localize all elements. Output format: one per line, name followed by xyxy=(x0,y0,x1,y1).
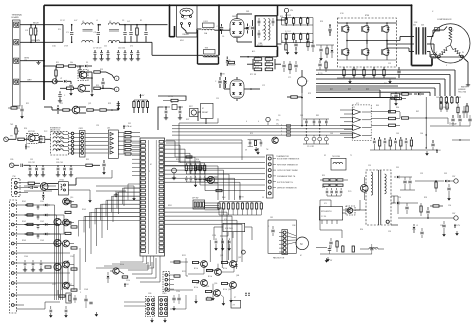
junction node mains xyxy=(240,50,277,58)
filter choke L203 xyxy=(255,16,277,47)
terminal board TB1 label xyxy=(12,14,23,19)
capacitor C204 xyxy=(251,20,254,36)
svg-text:DIP SW: DIP SW xyxy=(192,198,199,200)
bus wires left2 xyxy=(24,215,64,234)
wire tap from bus xyxy=(43,65,56,67)
svg-text:IC9: IC9 xyxy=(324,203,327,205)
relay overload box K1 xyxy=(177,6,198,38)
svg-text:RA3: RA3 xyxy=(222,196,225,199)
wire k41 bus xyxy=(24,170,134,198)
resistor R13 xyxy=(94,71,106,73)
svg-text:L9: L9 xyxy=(416,225,418,227)
connector PW1 xyxy=(12,176,28,197)
power 5V c xyxy=(430,149,441,153)
capacitor group C33 xyxy=(56,162,73,177)
wire reset to mcu xyxy=(198,112,206,124)
svg-text:R68: R68 xyxy=(352,133,355,135)
diode D11 xyxy=(80,65,92,68)
resistor R21 xyxy=(58,109,72,111)
svg-text:R122: R122 xyxy=(182,271,186,273)
svg-text:C102: C102 xyxy=(40,221,44,223)
connector CN84 xyxy=(159,297,168,317)
wire L202 to bridge xyxy=(204,56,220,58)
svg-text:BOARD: BOARD xyxy=(12,16,20,19)
motor opto box PC21 xyxy=(27,131,39,143)
terminal X21 xyxy=(4,137,16,142)
svg-text:PW: PW xyxy=(13,176,16,178)
mcu left fan xyxy=(79,143,141,236)
svg-text:R91: R91 xyxy=(322,175,325,177)
comparator bus vertical xyxy=(426,97,427,149)
IPM bus top xyxy=(338,22,397,24)
svg-text:R73: R73 xyxy=(308,93,311,95)
wire s21 xyxy=(45,138,51,140)
svg-text:PC9: PC9 xyxy=(348,191,351,193)
svg-text:C104: C104 xyxy=(24,256,28,258)
sensor pullups xyxy=(185,163,206,174)
power 5V b xyxy=(25,144,30,149)
capacitor C35 xyxy=(21,164,30,167)
right edge parts xyxy=(466,103,472,126)
svg-text:C33: C33 xyxy=(56,159,59,161)
comparators U61 A-D xyxy=(352,107,371,138)
inductor L201 xyxy=(202,21,230,31)
ground G51 xyxy=(256,148,260,155)
smps controller U71 xyxy=(319,207,342,224)
svg-text:R107: R107 xyxy=(68,284,72,286)
connector pin P501 xyxy=(284,8,293,20)
cn71 wires xyxy=(14,205,24,305)
wire W out xyxy=(387,41,414,52)
svg-text:C108: C108 xyxy=(84,289,88,291)
wire U out xyxy=(347,37,414,41)
wire ct to sense xyxy=(301,93,303,126)
driver stages xyxy=(63,198,77,291)
svg-text:0.47: 0.47 xyxy=(74,20,77,22)
svg-text:CT1: CT1 xyxy=(288,77,291,79)
capacitor C5 line xyxy=(144,25,147,43)
connector pin P52 xyxy=(266,117,270,125)
smps lower parts xyxy=(326,238,338,262)
svg-text:DB1: DB1 xyxy=(246,11,249,13)
svg-text:1 2 3 4: 1 2 3 4 xyxy=(321,216,326,218)
smps extra parts xyxy=(391,196,443,233)
labels cs xyxy=(276,120,279,126)
igbt aux parts2 xyxy=(318,60,327,75)
diode D74 xyxy=(440,180,447,182)
wire web center xyxy=(128,256,160,282)
capacitor C13 xyxy=(101,78,104,89)
resistor chain R71 xyxy=(320,179,348,181)
svg-text:R121: R121 xyxy=(182,255,186,257)
gate drive wires xyxy=(316,70,455,96)
svg-text:CN10: CN10 xyxy=(162,293,166,295)
svg-text:222: 222 xyxy=(104,46,107,48)
transistor Q12 xyxy=(78,85,90,93)
svg-text:C61: C61 xyxy=(436,97,439,99)
transistor array Q81-Q88 xyxy=(193,240,250,299)
pullup array RA3 xyxy=(218,195,263,215)
capacitor C521 xyxy=(397,67,400,78)
svg-text:Q90: Q90 xyxy=(214,283,217,285)
svg-text:R94: R94 xyxy=(360,229,363,231)
transistor Q72 xyxy=(54,218,61,225)
svg-text:Q21: Q21 xyxy=(88,103,91,105)
mcu bus down xyxy=(165,166,241,200)
wire bridge top xyxy=(237,14,252,17)
bus dots xyxy=(43,4,412,98)
svg-text:R110: R110 xyxy=(120,264,124,266)
resistor R203 xyxy=(228,61,237,66)
wire gray xyxy=(20,80,53,82)
svg-text:R81: R81 xyxy=(316,115,319,117)
svg-text:XT: XT xyxy=(234,297,236,299)
driver resistors xyxy=(65,201,71,235)
diode D12 xyxy=(60,80,71,83)
wire row21 xyxy=(44,107,58,110)
wire motor V xyxy=(427,44,437,55)
right edge parts2 xyxy=(452,104,470,141)
wire orange xyxy=(412,118,457,126)
svg-text:M: M xyxy=(300,242,302,246)
resistor R64 xyxy=(400,112,412,119)
svg-text:C62: C62 xyxy=(458,97,461,99)
svg-text:R102: R102 xyxy=(22,221,26,223)
svg-text:R 10k: R 10k xyxy=(194,287,198,289)
thick bus right vertical xyxy=(411,5,413,65)
transistor Q22 xyxy=(28,135,38,142)
svg-text:C65: C65 xyxy=(396,133,399,135)
svg-text:C2 C4 R2: C2 C4 R2 xyxy=(307,146,314,148)
comparator top resistor xyxy=(389,97,406,112)
expansion valve coil LV1 xyxy=(50,126,68,155)
connector CN82 xyxy=(163,272,174,292)
svg-text:Q10: Q10 xyxy=(70,197,73,199)
svg-text:C81: C81 xyxy=(300,115,303,117)
driver IC U21 ULN2003 xyxy=(107,128,118,159)
zener D221 xyxy=(224,77,227,88)
svg-text:C94: C94 xyxy=(448,205,451,207)
sense divider grid xyxy=(303,119,329,148)
dip wires xyxy=(205,203,219,210)
svg-text:R 1W: R 1W xyxy=(266,62,270,64)
fan gnd xyxy=(325,258,333,263)
svg-text:C98 400V: C98 400V xyxy=(228,65,237,67)
thermistor labels xyxy=(273,159,300,190)
svg-text:R61: R61 xyxy=(330,89,333,91)
terminal label OR xyxy=(431,55,436,59)
svg-text:Q81: Q81 xyxy=(220,255,223,257)
svg-text:C33 C34: C33 C34 xyxy=(56,162,63,164)
sensor caps xyxy=(185,176,206,187)
svg-text:R15: R15 xyxy=(96,85,99,87)
svg-text:R62: R62 xyxy=(348,89,351,91)
svg-text:R0.022: R0.022 xyxy=(352,69,358,71)
gate resistors row xyxy=(440,96,459,104)
wire motor earth xyxy=(464,59,470,87)
wire out1 xyxy=(106,72,114,78)
svg-text:12V: 12V xyxy=(125,126,129,128)
svg-text:L2: L2 xyxy=(375,249,377,251)
sense rc cluster xyxy=(245,137,278,152)
terminal X31 xyxy=(9,163,19,168)
resistor R531 xyxy=(399,93,412,95)
terminal board TB1 xyxy=(13,20,21,106)
relay contacts K1 xyxy=(181,23,191,37)
diode D41 xyxy=(42,192,45,200)
capacitor bank CY ground row xyxy=(93,50,140,61)
svg-text:R55: R55 xyxy=(176,159,179,161)
svg-text:R56: R56 xyxy=(196,159,199,161)
capacitor C62 xyxy=(458,115,461,126)
svg-text:C63: C63 xyxy=(330,133,333,135)
svg-text:C1 X2: C1 X2 xyxy=(60,20,65,22)
svg-text:R53: R53 xyxy=(320,21,323,23)
svg-text:U21: U21 xyxy=(107,128,110,130)
relay driver box K41 xyxy=(52,180,68,196)
label gate res xyxy=(440,107,449,109)
resistor R24 xyxy=(15,125,20,139)
transformer T71 xyxy=(366,170,391,225)
svg-text:R75: R75 xyxy=(250,133,253,135)
svg-text:C31: C31 xyxy=(30,159,33,161)
svg-text:C52: C52 xyxy=(388,63,391,65)
svg-text:502: 502 xyxy=(413,25,416,27)
svg-text:R 1W: R 1W xyxy=(255,57,259,59)
transistor Q73 xyxy=(54,239,61,246)
capacitor C201 xyxy=(217,24,224,34)
capacitor C52 xyxy=(178,106,182,120)
svg-text:D21: D21 xyxy=(128,123,131,125)
IPM emitter rail xyxy=(338,59,397,61)
svg-text:YELLOW): YELLOW) xyxy=(458,91,466,93)
resistor R22 xyxy=(87,109,99,111)
svg-text:R105: R105 xyxy=(82,209,86,211)
smps small parts xyxy=(326,188,343,196)
svg-text:Q82: Q82 xyxy=(238,257,241,259)
extra gnds tile4 xyxy=(88,191,136,203)
wire filter out top xyxy=(277,19,286,21)
terminal label WH xyxy=(435,28,440,32)
wires valve to driver xyxy=(85,134,108,154)
svg-text:R 1W: R 1W xyxy=(255,62,259,64)
caps row7 xyxy=(23,260,43,272)
svg-text:56k: 56k xyxy=(70,62,73,64)
resistor R73 xyxy=(420,203,422,216)
array wires xyxy=(164,258,234,290)
svg-text:R71 1W: R71 1W xyxy=(250,74,257,76)
connector CN71 xyxy=(9,200,16,313)
stair drops xyxy=(62,248,80,290)
svg-text:C3: C3 xyxy=(122,20,124,22)
label compressor xyxy=(437,19,452,21)
common-mode choke L1 xyxy=(82,21,93,42)
svg-text:R11: R11 xyxy=(56,62,59,64)
svg-text:FAN MOTOR: FAN MOTOR xyxy=(273,257,285,260)
thick bus to motor xyxy=(412,59,433,66)
label th xyxy=(10,136,13,138)
svg-text:C93: C93 xyxy=(398,197,401,199)
wire mains L to filter xyxy=(44,24,63,26)
svg-text:DISCHARGE TEMP. TH.: DISCHARGE TEMP. TH. xyxy=(277,175,296,178)
svg-text:THERMISTOR: THERMISTOR xyxy=(276,156,289,158)
svg-text:R 10k: R 10k xyxy=(223,289,227,291)
fan cap C81 xyxy=(268,226,275,236)
wires bottom8 xyxy=(124,283,186,309)
fuse F1 xyxy=(26,24,33,43)
svg-text:IC3 2903: IC3 2903 xyxy=(225,228,233,230)
svg-text:W: W xyxy=(462,52,464,54)
capacitor C41 xyxy=(28,186,38,189)
capacitor C512 xyxy=(294,40,298,55)
svg-text:CN8: CN8 xyxy=(292,225,295,227)
wire bridge plus xyxy=(244,27,248,29)
terminal 1 xyxy=(114,76,119,81)
tile4 corner parts xyxy=(8,105,24,119)
diode D72 xyxy=(394,202,404,205)
transistor Q51 xyxy=(207,176,218,183)
svg-text:C92: C92 xyxy=(420,173,423,175)
thick bus left vertical xyxy=(43,5,45,100)
out pin 15V xyxy=(444,213,458,220)
igbt aux parts xyxy=(316,45,334,61)
bridge rectifier DB201 xyxy=(230,16,244,40)
capacitor C511 xyxy=(328,24,331,36)
current transformer CT1 xyxy=(297,70,309,93)
capacitor C36 xyxy=(102,160,106,175)
resistor R25 xyxy=(18,138,28,140)
resistor array RA2 xyxy=(118,126,140,155)
resistor R14 xyxy=(60,87,78,90)
svg-text:ACL: ACL xyxy=(252,50,255,53)
svg-text:C110: C110 xyxy=(126,280,130,282)
connector CN502 CN503 xyxy=(413,25,426,55)
wire k41 out xyxy=(68,178,76,185)
fan motor M2 xyxy=(287,233,308,250)
svg-text:C91: C91 xyxy=(368,165,371,167)
svg-text:C31 C32: C31 C32 xyxy=(28,162,35,164)
capacitor C2 xyxy=(94,24,101,43)
power 12V d xyxy=(454,224,461,228)
diode D201 xyxy=(226,57,231,67)
svg-text:ROOM TEMP. THERMISTOR: ROOM TEMP. THERMISTOR xyxy=(277,159,300,161)
capacitor C531 xyxy=(394,92,398,106)
ic box U22 xyxy=(39,137,45,143)
opamp U81 xyxy=(223,223,245,231)
box XT1 xyxy=(231,300,241,308)
svg-text:CS-: CS- xyxy=(276,124,279,126)
mcu left stair2 xyxy=(86,188,141,262)
svg-text:C101: C101 xyxy=(40,201,44,203)
svg-text:C6: C6 xyxy=(222,36,224,38)
overload protector OLP1 xyxy=(180,8,193,20)
svg-text:DEFROST THERMISTOR: DEFROST THERMISTOR xyxy=(277,188,297,190)
wire green-yellow earth xyxy=(20,58,39,62)
svg-text:R13: R13 xyxy=(100,69,103,71)
capacitor C22 xyxy=(39,135,45,143)
bottom caps A xyxy=(49,306,68,318)
cap C75 xyxy=(442,221,446,237)
diode D21 xyxy=(57,105,60,114)
capacitor C3 xyxy=(123,24,126,43)
fan motor box xyxy=(268,220,296,253)
svg-text:F2: F2 xyxy=(324,155,326,157)
ground G12 xyxy=(90,72,94,97)
svg-text:R66: R66 xyxy=(396,107,399,109)
svg-text:VALVE COIL: VALVE COIL xyxy=(50,128,60,131)
wires bottom tile3 xyxy=(316,86,398,98)
wire row31 xyxy=(30,164,85,166)
resistor bank R231 1W xyxy=(253,57,275,71)
svg-text:PC2: PC2 xyxy=(44,131,47,133)
capacitor C61 xyxy=(451,115,454,126)
svg-text:RST: RST xyxy=(186,119,189,121)
capacitor C202 xyxy=(246,24,251,34)
svg-text:C66: C66 xyxy=(420,133,423,135)
svg-text:CN21: CN21 xyxy=(79,128,84,130)
svg-text:IC3: IC3 xyxy=(224,219,227,221)
svg-text:L1: L1 xyxy=(96,20,98,22)
microcontroller U1 xyxy=(140,138,165,256)
svg-text:R R R R: R R R R xyxy=(285,15,292,17)
gnd G71 xyxy=(455,231,459,236)
svg-text:R65: R65 xyxy=(376,105,379,107)
svg-text:R92: R92 xyxy=(322,187,325,189)
part circle P51 xyxy=(172,168,177,180)
svg-text:D92: D92 xyxy=(444,173,447,175)
svg-text:R 10k: R 10k xyxy=(208,276,212,278)
capacitor C71 xyxy=(425,140,435,156)
svg-text:R 1W: R 1W xyxy=(266,57,270,59)
svg-text:STR-W6753: STR-W6753 xyxy=(321,211,331,213)
svg-text:D1: D1 xyxy=(86,62,88,64)
capacitor C11 xyxy=(78,66,81,78)
svg-text:R67: R67 xyxy=(416,111,419,113)
wire thick return xyxy=(316,97,399,99)
inductor L202 xyxy=(152,48,219,57)
cap bank C72 xyxy=(400,177,415,190)
transistor Q21 xyxy=(72,106,86,114)
svg-text:R103: R103 xyxy=(22,240,26,242)
connector CN81 xyxy=(279,230,287,255)
svg-text:CN2: CN2 xyxy=(414,22,417,24)
capacitor C51 xyxy=(164,106,168,120)
crystal X1 xyxy=(163,102,183,110)
resistor R65 xyxy=(440,101,442,112)
svg-text:C72: C72 xyxy=(262,85,265,87)
connector CN22 xyxy=(74,128,85,157)
svg-text:L201: L201 xyxy=(204,21,208,23)
svg-text:IPM: IPM xyxy=(365,15,369,17)
resistor R1 xyxy=(58,25,63,43)
feedback resistors R61 xyxy=(371,111,400,127)
transistor Q11 xyxy=(79,71,92,79)
resistor R241 xyxy=(287,96,302,98)
svg-text:SW1: SW1 xyxy=(168,205,172,207)
snubber extras xyxy=(307,38,315,52)
compressor motor M1 xyxy=(431,24,470,63)
wire xtal to mcu xyxy=(158,96,186,130)
svg-text:MOTOR: MOTOR xyxy=(28,131,35,133)
small parts row xyxy=(58,91,66,103)
svg-text:503: 503 xyxy=(421,25,424,27)
tile7 row diodes xyxy=(43,204,50,236)
svg-text:R93: R93 xyxy=(424,197,427,199)
wire motor W xyxy=(427,52,464,58)
fuse box F61 xyxy=(331,156,346,170)
svg-text:T98: T98 xyxy=(205,48,208,50)
svg-text:472: 472 xyxy=(130,46,133,48)
